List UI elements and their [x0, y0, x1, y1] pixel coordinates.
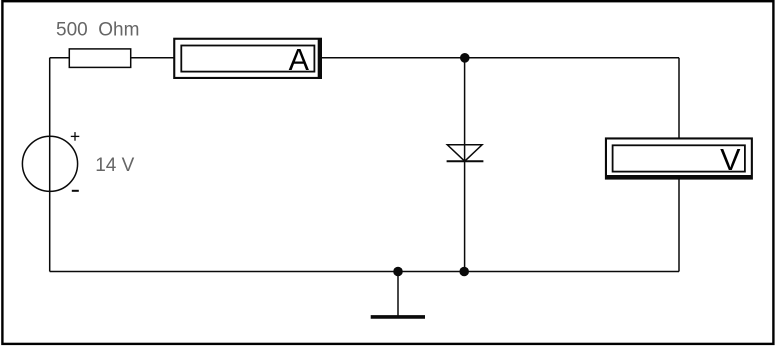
- svg-text:14 V: 14 V: [95, 155, 134, 176]
- node: junction diode bottom: [459, 267, 469, 277]
- wire: top-left horizontal from left rail to resistor: [50, 57, 70, 59]
- wire: ammeter to top-right corner: [321, 57, 679, 59]
- resistor R1: [69, 49, 130, 68]
- ground: [371, 272, 425, 317]
- wire: resistor to ammeter: [130, 57, 174, 59]
- voltage source V1, 14 V: [22, 132, 79, 191]
- voltmeter V: [605, 137, 753, 179]
- svg-text:500 Ohm: 500 Ohm: [56, 20, 139, 41]
- node: junction ground: [393, 267, 403, 277]
- diode D1: [447, 145, 484, 161]
- wire: right vertical rail: [678, 58, 680, 272]
- wire: bottom horizontal rail: [50, 271, 679, 273]
- wire: left vertical rail: [49, 58, 51, 272]
- ammeter A: [173, 38, 322, 79]
- svg-text:V: V: [720, 143, 741, 177]
- node: junction top: [460, 53, 470, 63]
- svg-text:A: A: [289, 43, 310, 77]
- wire: diode branch vertical: [464, 58, 466, 272]
